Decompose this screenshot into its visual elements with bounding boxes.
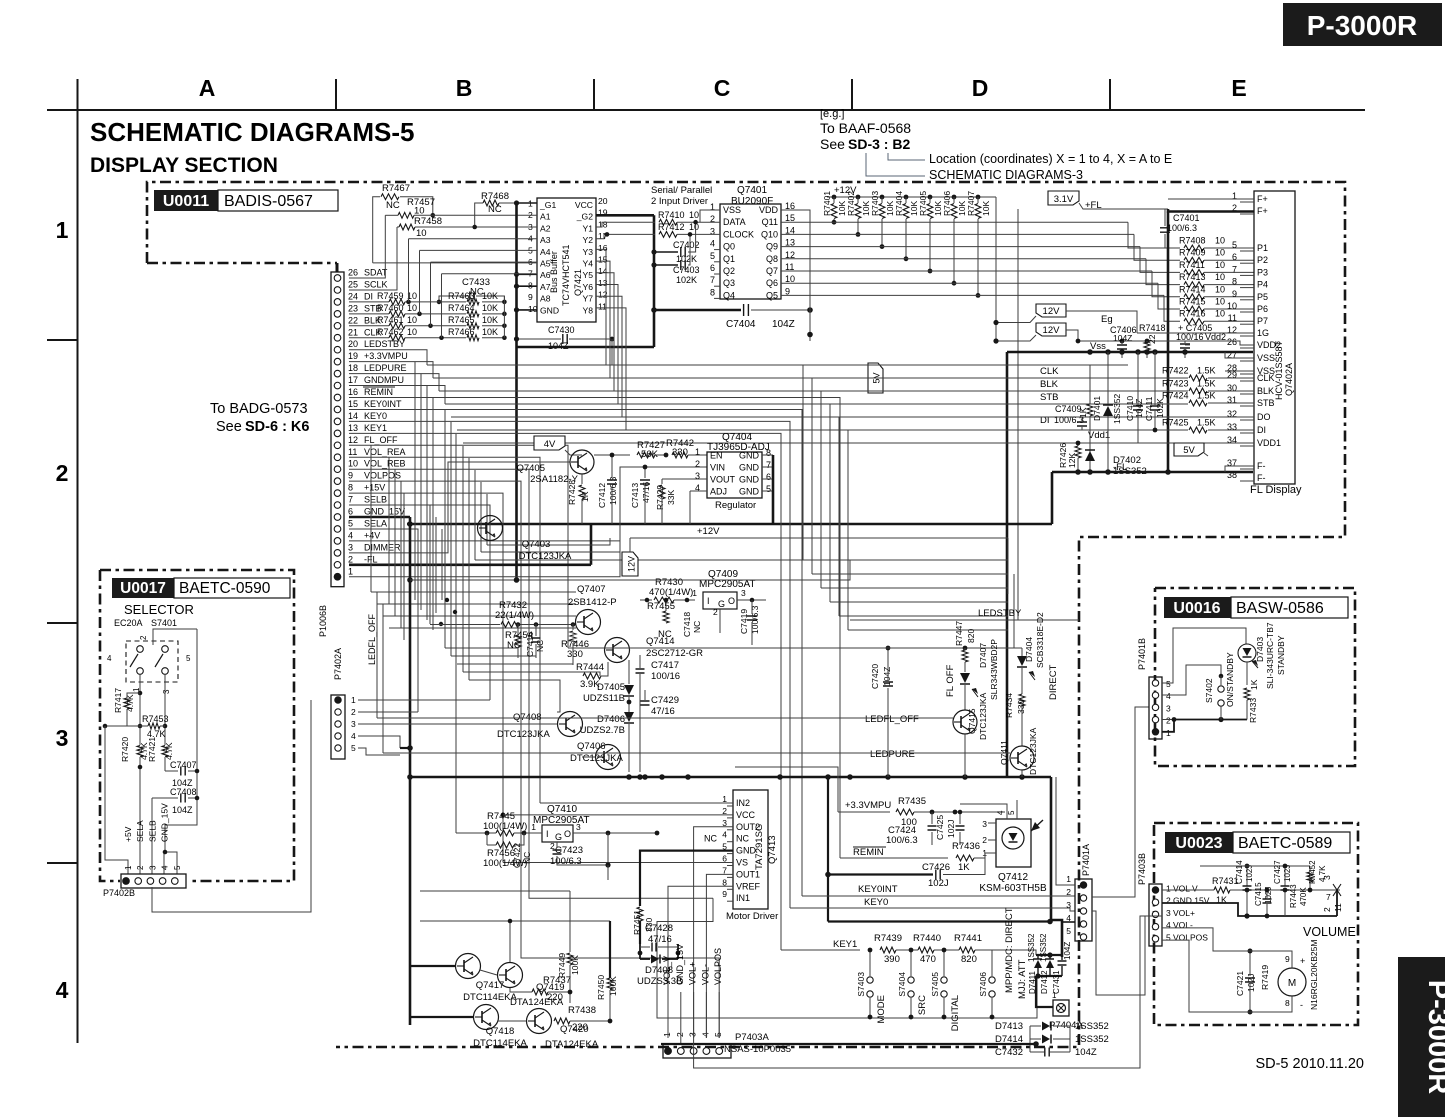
svg-text:CLK: CLK [1040,366,1059,377]
heavy gnd bus y524 [407,523,1052,526]
wires P7402A [358,699,490,701]
gnd bus corner to C7404 [517,346,655,349]
wire GNDMPU row [349,386,445,404]
svg-text:1SS352: 1SS352 [1039,933,1048,962]
svg-text:GND 15V: GND 15V [1173,896,1210,906]
svg-text:VDD: VDD [759,205,779,215]
svg-text:14: 14 [348,411,358,421]
svg-text:R7417: R7417 [113,688,123,713]
svg-text:8: 8 [710,287,715,297]
resistor R7461 10 [349,325,389,327]
svg-text:R7425: R7425 [1162,418,1189,428]
svg-text:REMIN: REMIN [364,387,393,397]
svg-text:-: - [1300,1000,1303,1010]
svg-text:LEDPURE: LEDPURE [364,363,407,373]
voltage tag 12V rotated [622,552,638,576]
svg-text:390: 390 [884,954,900,965]
resistor R7460 10 [349,313,389,315]
wire SELB rail [151,798,153,874]
svg-text:10: 10 [1215,236,1225,246]
svg-text:SELA: SELA [135,820,145,842]
svg-text:P7401B: P7401B [1137,638,1147,670]
svg-text:_G1: _G1 [539,200,556,210]
resistor R7465 10K [467,323,479,329]
vertical feed x1018 [1017,209,1019,620]
svg-text:3: 3 [56,725,69,751]
IC Q7413 TA7291SG motor driver [733,790,768,909]
svg-text:R7419: R7419 [1260,965,1270,990]
svg-text:8: 8 [528,280,533,290]
svg-text:10: 10 [1215,272,1225,282]
svg-text:22: 22 [1147,334,1157,344]
svg-text:DTC123JKA: DTC123JKA [978,692,988,740]
svg-text:1SS352: 1SS352 [1112,393,1122,424]
svg-text:C7428: C7428 [645,923,673,934]
svg-text:5: 5 [1232,240,1237,250]
svg-text:R7401: R7401 [822,191,832,216]
svg-text:Q3: Q3 [723,278,735,288]
key matrix loop [657,898,1037,1018]
wire Q7410 out [573,832,657,834]
transistor Q7420 DTA124EKA [527,1009,552,1034]
heavy gnd row U0023 [1162,903,1337,916]
svg-text:10K: 10K [981,201,991,216]
svg-text:C7419: C7419 [739,609,749,634]
svg-text:18: 18 [598,219,608,229]
svg-text:P6: P6 [1257,304,1268,314]
svg-text:GND_15V: GND_15V [364,507,405,517]
svg-text:GND: GND [739,475,760,485]
svg-text:C7413: C7413 [630,483,640,508]
svg-text:C7416: C7416 [525,632,535,657]
svg-text:10K: 10K [482,327,498,337]
svg-text:A1: A1 [540,212,551,222]
svg-text:3: 3 [688,1032,698,1037]
led D7403 SLI-343URC-TB7 STANDBY [1238,644,1256,662]
svg-text:102J: 102J [1246,974,1256,992]
svg-text:GND: GND [736,846,757,856]
svg-text:R7407: R7407 [966,191,976,216]
wire base row y624 [430,624,500,626]
wire GND_15V row heavy [349,516,410,519]
wire Q7419 collector [510,988,532,992]
svg-text:10: 10 [416,228,427,239]
svg-text:REMIN: REMIN [853,847,884,858]
svg-text:6: 6 [348,507,353,517]
resistor R7459 10 [349,301,389,303]
svg-text:R7403: R7403 [870,191,880,216]
svg-text:16: 16 [348,387,358,397]
svg-text:D7413: D7413 [995,1021,1023,1032]
svg-text:1K: 1K [958,862,970,873]
svg-text:2SB1412-P: 2SB1412-P [568,597,617,608]
svg-text:4: 4 [161,865,170,870]
svg-text:6: 6 [1232,252,1237,262]
wire LEDSTBY row [349,350,433,365]
wire _G2 to gnd bus [596,214,654,217]
svg-text:R7443: R7443 [1289,884,1298,908]
svg-text:KEY0: KEY0 [864,897,888,908]
svg-text:VOL+: VOL+ [1173,908,1195,918]
svg-text:STB: STB [1040,392,1058,403]
svg-text:NC: NC [704,834,717,844]
svg-text:R7463: R7463 [448,291,475,301]
svg-text:10K: 10K [482,303,498,313]
svg-text:R7420: R7420 [120,737,130,762]
resistor R7405 10K [928,195,933,200]
svg-text:1: 1 [1166,728,1171,738]
svg-text:OUT1: OUT1 [736,869,760,879]
voltage tag 5V [1174,443,1204,456]
svg-text:A4: A4 [540,247,551,257]
svg-text:NC: NC [488,204,502,215]
svg-text:VOL-: VOL- [1173,920,1193,930]
svg-text:2 Input Driver: 2 Input Driver [651,196,708,207]
svg-text:+5V: +5V [123,826,133,842]
svg-text:A6: A6 [540,270,551,280]
svg-text:220: 220 [547,992,563,1003]
svg-text:R7402: R7402 [846,191,856,216]
transistor Q7419 DTA124EKA [498,963,523,988]
wire VDD to +12V rail [781,210,810,341]
wires P7402B out [152,700,311,912]
U0016 board boundary dash-dot [1155,588,1355,766]
wire OUT2 to VOL+ [694,827,733,1038]
svg-text:R7462: R7462 [377,327,404,337]
svg-text:DI: DI [1257,425,1266,435]
svg-text:9: 9 [722,889,727,899]
svg-text:22(1/4W): 22(1/4W) [495,610,534,621]
svg-text:+: + [1300,956,1305,966]
wire stub to P1006B [336,263,339,272]
resistor R7401 10K [832,195,837,200]
svg-text:Q7403: Q7403 [522,539,551,550]
U0023 label [1165,832,1233,853]
svg-text:5: 5 [186,654,191,663]
svg-text:25: 25 [348,279,358,289]
svg-text:7: 7 [766,460,771,470]
svg-text:R7413: R7413 [1179,272,1206,282]
resistor R7464 10K [467,311,479,317]
svg-text:Vdd1: Vdd1 [1088,430,1110,441]
svg-text:100(1/4W): 100(1/4W) [483,821,527,832]
voltage tag 12V upper [1036,304,1066,317]
svg-text:C7427: C7427 [1273,860,1282,884]
svg-text:VOLPOS: VOLPOS [1173,932,1208,942]
svg-text:OUT2: OUT2 [736,822,760,832]
resistor R7463 10K [467,299,479,305]
wire -FL row heavy [349,563,591,566]
svg-text:26: 26 [348,268,358,278]
wire IN2 [540,802,733,804]
svg-text:R7467: R7467 [382,183,410,194]
svg-text:R7459: R7459 [377,291,404,301]
svg-text:330: 330 [567,649,583,660]
svg-text:26: 26 [1227,337,1237,347]
svg-text:Q7414: Q7414 [646,636,675,647]
resistor R7413 10 [1146,259,1180,285]
svg-text:4: 4 [1166,920,1171,930]
svg-text:+3.3VMPU: +3.3VMPU [845,800,891,811]
svg-text:MPP/MDC: DIRECT: MPP/MDC: DIRECT [1004,907,1015,993]
svg-text:P2: P2 [1257,255,1268,265]
resistor R7411 10 [1140,247,1180,273]
svg-text:IN2: IN2 [736,798,750,808]
wire VDD1 row [463,442,1254,444]
wire F+ pins [1168,209,1254,212]
svg-text:F-: F- [1257,473,1266,483]
svg-text:VOL_V: VOL_V [662,956,672,985]
svg-text:3.1V: 3.1V [1054,194,1074,205]
transistor Q7418 DTC114EKA [474,1005,499,1030]
svg-text:A7: A7 [540,282,551,292]
svg-text:10: 10 [689,210,699,220]
resistor R7404 10K [904,195,909,200]
svg-text:5: 5 [1066,926,1071,936]
svg-text:2: 2 [982,835,987,845]
svg-text:DISPLAY SECTION: DISPLAY SECTION [90,154,278,177]
svg-text:+15V: +15V [364,483,385,493]
heavy bus y777 [410,776,1051,779]
svg-text:SELECTOR: SELECTOR [124,602,194,617]
svg-text:11: 11 [1333,903,1343,912]
svg-text:R7411: R7411 [1179,260,1205,270]
svg-text:Q6: Q6 [766,278,778,288]
svg-text:8: 8 [348,483,353,493]
svg-text:100/16: 100/16 [651,671,680,682]
svg-text:R7439: R7439 [874,933,902,944]
wires Y3-Y8 to FL bus rows [596,249,606,365]
heavy bus right leg to P7401A [1051,777,1062,957]
svg-text:C7415: C7415 [1254,882,1263,906]
svg-text:See: See [820,136,845,152]
grid header rule [47,109,1365,111]
wire DI to bus buffer input [408,239,410,302]
svg-text:F+: F+ [1257,194,1268,204]
svg-text:SRC: SRC [917,995,928,1015]
svg-text:C7420: C7420 [870,664,880,689]
svg-text:9: 9 [1232,289,1237,299]
svg-text:C7401: C7401 [1173,213,1200,223]
svg-text:5V: 5V [1183,445,1195,456]
svg-text:Q7412: Q7412 [998,872,1028,883]
svg-text:R7466: R7466 [448,327,475,337]
svg-text:EN: EN [710,451,723,461]
wires into U0023 from left [1092,903,1162,924]
svg-text:2: 2 [1166,716,1171,726]
svg-text:U0016: U0016 [1173,600,1220,617]
svg-text:DI: DI [364,291,373,301]
svg-text:E: E [1231,75,1246,101]
svg-text:SD-6 : K6: SD-6 : K6 [245,419,309,435]
svg-text:P7403B: P7403B [1137,853,1147,885]
ir receiver Q7412 KSM-603TH5B [996,819,1031,867]
svg-text:18: 18 [348,363,358,373]
svg-text:C7404: C7404 [726,319,756,330]
voltage tag 12V lower [1036,323,1066,336]
wire SELA row [349,529,418,712]
transistor Q7411 DTC123JKA [1010,746,1034,770]
svg-text:2: 2 [351,707,356,717]
svg-text:S7406: S7406 [978,972,988,997]
wire +4V row [349,467,707,541]
wire SELA rail [139,675,141,742]
svg-text:17: 17 [348,375,358,385]
svg-text:8: 8 [1232,277,1237,287]
svg-text:10: 10 [1215,260,1225,270]
svg-text:STB: STB [1257,398,1275,408]
svg-text:GNDMPU: GNDMPU [364,375,404,385]
svg-text:TC74VHCT541: TC74VHCT541 [561,244,571,306]
connector P7403A NSAS-10P0035 [663,1044,731,1058]
model number plate bottom-right vertical [1398,957,1445,1117]
svg-text:Q7402A: Q7402A [1284,363,1294,396]
svg-text:1: 1 [56,217,69,243]
svg-text:2: 2 [713,607,718,617]
svg-text:G: G [555,832,562,842]
svg-text:Q4: Q4 [723,290,735,300]
svg-text:10: 10 [348,459,358,469]
svg-text:GND_15V: GND_15V [675,944,685,985]
svg-text:R7444: R7444 [576,662,604,673]
wire VREF to VOL_V [668,886,733,1038]
wire STB to bus buffer input [419,250,421,313]
svg-text:NC: NC [522,852,532,864]
model number plate top-right [1283,3,1442,46]
svg-text:D7412: D7412 [1040,970,1049,994]
svg-text:CLK: CLK [1257,373,1275,383]
svg-text:A8: A8 [540,294,551,304]
svg-text:DIGITAL: DIGITAL [950,995,961,1031]
svg-text:S7401: S7401 [151,618,177,628]
svg-text:R7414: R7414 [1179,284,1206,294]
heavy regulator gnd [772,455,775,524]
svg-text:VS: VS [736,858,748,868]
svg-text:P7: P7 [1257,316,1268,326]
svg-text:P7403A: P7403A [735,1032,769,1043]
svg-text:1: 1 [1066,874,1071,884]
svg-text:C: C [714,75,731,101]
svg-text:R7438: R7438 [568,1005,596,1016]
svg-text:KEY1: KEY1 [364,423,387,433]
svg-text:LEDSTBY: LEDSTBY [978,608,1022,619]
svg-text:UDZS11B: UDZS11B [583,693,625,704]
svg-text:820: 820 [961,954,977,965]
svg-text:Q7407: Q7407 [577,584,606,595]
wires P7401A to U0016 [1092,707,1149,897]
svg-text:Y2: Y2 [582,235,593,245]
svg-text:2: 2 [136,865,145,870]
svg-text:4: 4 [1166,691,1171,701]
svg-text:VREF: VREF [736,881,761,891]
svg-text:BADIS-0567: BADIS-0567 [224,193,313,210]
voltage tag 4V [534,436,565,450]
svg-text:MPC2905AT: MPC2905AT [533,815,590,826]
svg-text:10: 10 [1227,301,1237,311]
svg-text:1SS352: 1SS352 [1027,933,1036,962]
wire VOL_REA row [349,457,540,803]
svg-text:VOL_REA: VOL_REA [364,447,406,457]
svg-text:SCB3318E-D2: SCB3318E-D2 [1035,612,1045,668]
svg-text:R7460: R7460 [377,303,404,313]
svg-text:U0011: U0011 [163,193,209,210]
svg-text:R7404: R7404 [894,191,904,216]
wires U0016 [1162,628,1246,683]
svg-text:R7408: R7408 [1179,236,1206,246]
svg-text:1: 1 [1052,991,1057,1000]
svg-text:VOUT: VOUT [710,475,736,485]
long bus rows to FL display [427,364,1128,366]
svg-text:13: 13 [348,423,358,433]
svg-text:3: 3 [1166,703,1171,713]
svg-text:Regulator: Regulator [715,500,756,511]
svg-text:ADJ: ADJ [710,487,727,497]
svg-text:470K: 470K [1299,887,1308,906]
svg-text:R7409: R7409 [1179,248,1206,258]
svg-text:VSS: VSS [723,205,741,215]
svg-text:KEY0: KEY0 [364,411,387,421]
svg-text:Q7: Q7 [766,266,778,276]
nest horizontals mid [415,599,447,601]
svg-text:SD-3 : B2: SD-3 : B2 [848,136,910,152]
heavy key return y921 [828,920,1050,922]
svg-text:1.5K: 1.5K [1197,379,1216,389]
svg-text:B: B [456,75,473,101]
wire REMIN row [349,398,840,859]
wire KEY0INT row [349,409,802,896]
svg-text:3: 3 [982,819,987,829]
svg-text:R7440: R7440 [913,933,941,944]
svg-text:Serial/ Parallel: Serial/ Parallel [651,185,712,196]
svg-text:MPC2905AT: MPC2905AT [699,579,756,590]
svg-text:GND: GND [540,305,559,315]
wire VOLPOS row [349,481,719,1038]
transistor Q7415 DTC123JKA [953,710,977,734]
svg-text:820: 820 [966,629,976,643]
resistor R7408 10 [1128,222,1180,248]
svg-text:C7430: C7430 [548,325,575,335]
resistor R7433 1K [1244,688,1250,700]
svg-text:R7434: R7434 [1004,693,1014,718]
svg-text:104Z: 104Z [1063,942,1072,960]
svg-text:C7422: C7422 [512,843,522,868]
svg-text:8: 8 [766,448,771,458]
svg-text:Q7411: Q7411 [999,740,1009,765]
svg-text:R7451: R7451 [632,910,642,935]
svg-text:NC: NC [386,200,400,211]
resistor R7407 10K [976,195,981,200]
svg-text:Q5: Q5 [766,290,778,300]
svg-text:4: 4 [351,731,356,741]
svg-text:O: O [564,829,571,839]
svg-text:23: 23 [348,303,358,313]
svg-text:C7407: C7407 [170,760,197,770]
svg-text:C7417: C7417 [651,660,679,671]
svg-text:_G2: _G2 [576,212,593,222]
svg-text:1: 1 [692,588,697,598]
svg-text:FL_OFF: FL_OFF [364,435,398,445]
svg-text:2: 2 [1322,907,1332,912]
svg-text:C7421: C7421 [1235,971,1245,996]
svg-text:IN1: IN1 [736,893,750,903]
svg-text:R7415: R7415 [1179,297,1206,307]
arrow to ir receiver [1031,820,1043,831]
svg-text:11: 11 [348,447,357,457]
svg-text:Q7415: Q7415 [967,708,977,734]
svg-text:Q7418: Q7418 [486,1026,515,1037]
svg-text:3: 3 [1322,875,1332,880]
svg-text:R7453: R7453 [142,714,169,724]
